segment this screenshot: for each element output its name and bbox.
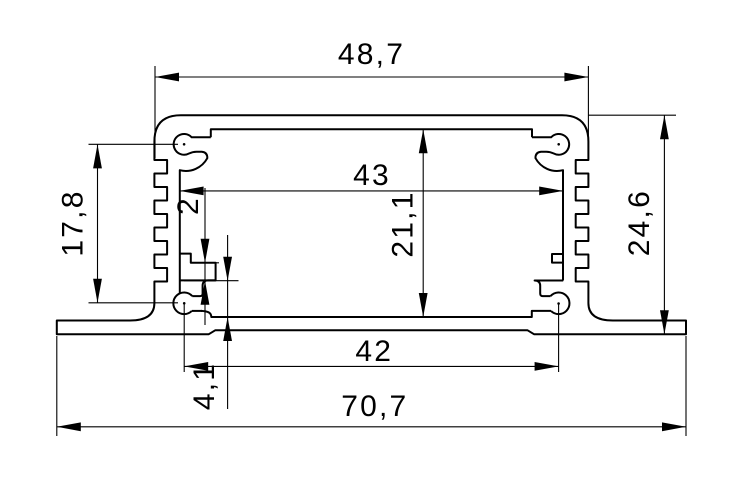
left wall PCB shelf with locating lip [180, 254, 216, 281]
svg-text:24,6: 24,6 [623, 189, 656, 256]
dimension 17,8 screw boss spacing [57, 144, 179, 302]
svg-text:2: 2 [172, 196, 205, 215]
dimension 48,7 overall top width [155, 38, 588, 158]
top-left screw boss with screw channel jaw [174, 134, 211, 293]
svg-text:42: 42 [355, 335, 393, 368]
svg-text:48,7: 48,7 [338, 38, 405, 71]
svg-text:70,7: 70,7 [341, 390, 408, 423]
bottom-left boss slot top edge and hanging jaw [192, 280, 215, 296]
dimension 42 bottom screw boss spacing [184, 303, 558, 372]
dimension 70,7 overall width [57, 336, 686, 436]
right outer wall with cooling fins [576, 142, 589, 304]
interior floor with steps at bottom bosses [201, 311, 551, 317]
inner ceiling with steps at screw bosses [211, 129, 532, 137]
dimension 21,1 inner height [387, 129, 428, 317]
left outer wall with cooling fins [154, 142, 167, 304]
svg-text:21,1: 21,1 [387, 190, 420, 257]
dimension 43 inner width [180, 159, 564, 195]
top-right screw boss with screw channel jaw [532, 134, 569, 281]
svg-text:43: 43 [353, 159, 391, 192]
dimension 2 shelf thickness [172, 188, 239, 325]
bottom-left boss slot bottom edge [192, 310, 202, 312]
dimension 4,1 shelf to floor height [188, 235, 232, 410]
screw boss center marks [183, 143, 560, 305]
top plate outer edge with rounded corners [154, 115, 588, 141]
dimension 24,6 overall height [588, 115, 676, 334]
svg-text:4,1: 4,1 [188, 362, 221, 410]
right wall PCB notch [552, 254, 563, 263]
bottom-right boss slot top edge and hanging jaw [535, 281, 564, 297]
svg-text:17,8: 17,8 [57, 189, 90, 256]
bottom flange wings and recessed underside [57, 303, 686, 334]
bottom-right screw boss open circle [551, 292, 570, 314]
bottom-left screw boss open circle [173, 292, 192, 314]
